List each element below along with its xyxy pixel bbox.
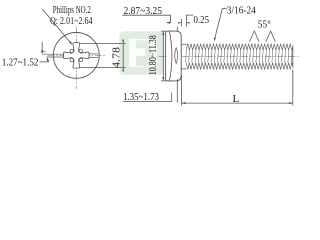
- svg-text:1.27~1.52: 1.27~1.52: [2, 56, 39, 68]
- svg-text:1.35~1.73: 1.35~1.73: [123, 91, 159, 103]
- svg-text:55°: 55°: [258, 18, 271, 30]
- svg-text:2.87~3.25: 2.87~3.25: [124, 5, 163, 17]
- svg-text:0.25: 0.25: [194, 14, 210, 26]
- svg-text:L: L: [233, 93, 240, 105]
- svg-text:4.78: 4.78: [111, 46, 123, 68]
- svg-text:3/16-24: 3/16-24: [227, 5, 256, 17]
- svg-text:10.80~11.38: 10.80~11.38: [147, 35, 159, 75]
- svg-text:Q: 2.01~2.64: Q: 2.01~2.64: [50, 15, 93, 27]
